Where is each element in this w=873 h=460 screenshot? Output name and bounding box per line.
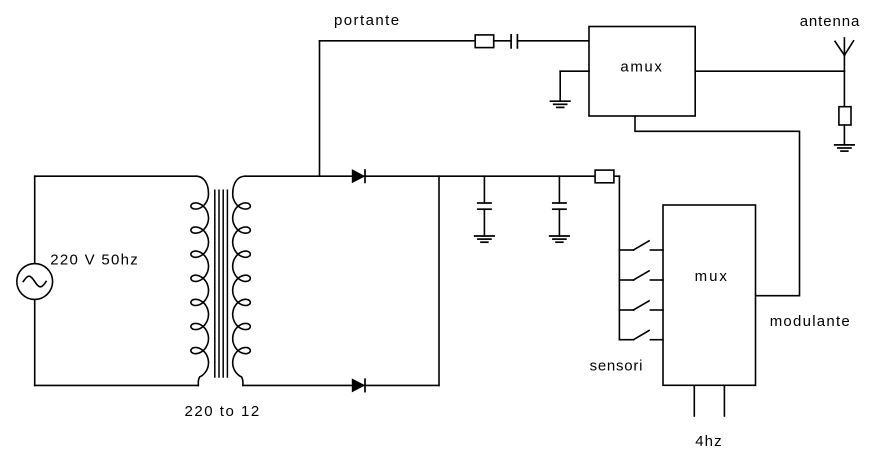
svg-text:4hz: 4hz [695,433,723,450]
svg-text:portante: portante [334,12,400,29]
svg-text:mux: mux [695,268,729,285]
svg-text:sensori: sensori [590,358,644,375]
svg-text:antenna: antenna [800,13,861,30]
svg-text:220 V 50hz: 220 V 50hz [50,252,139,269]
svg-text:amux: amux [620,58,663,75]
svg-text:220 to 12: 220 to 12 [185,403,261,420]
svg-text:modulante: modulante [770,313,851,330]
